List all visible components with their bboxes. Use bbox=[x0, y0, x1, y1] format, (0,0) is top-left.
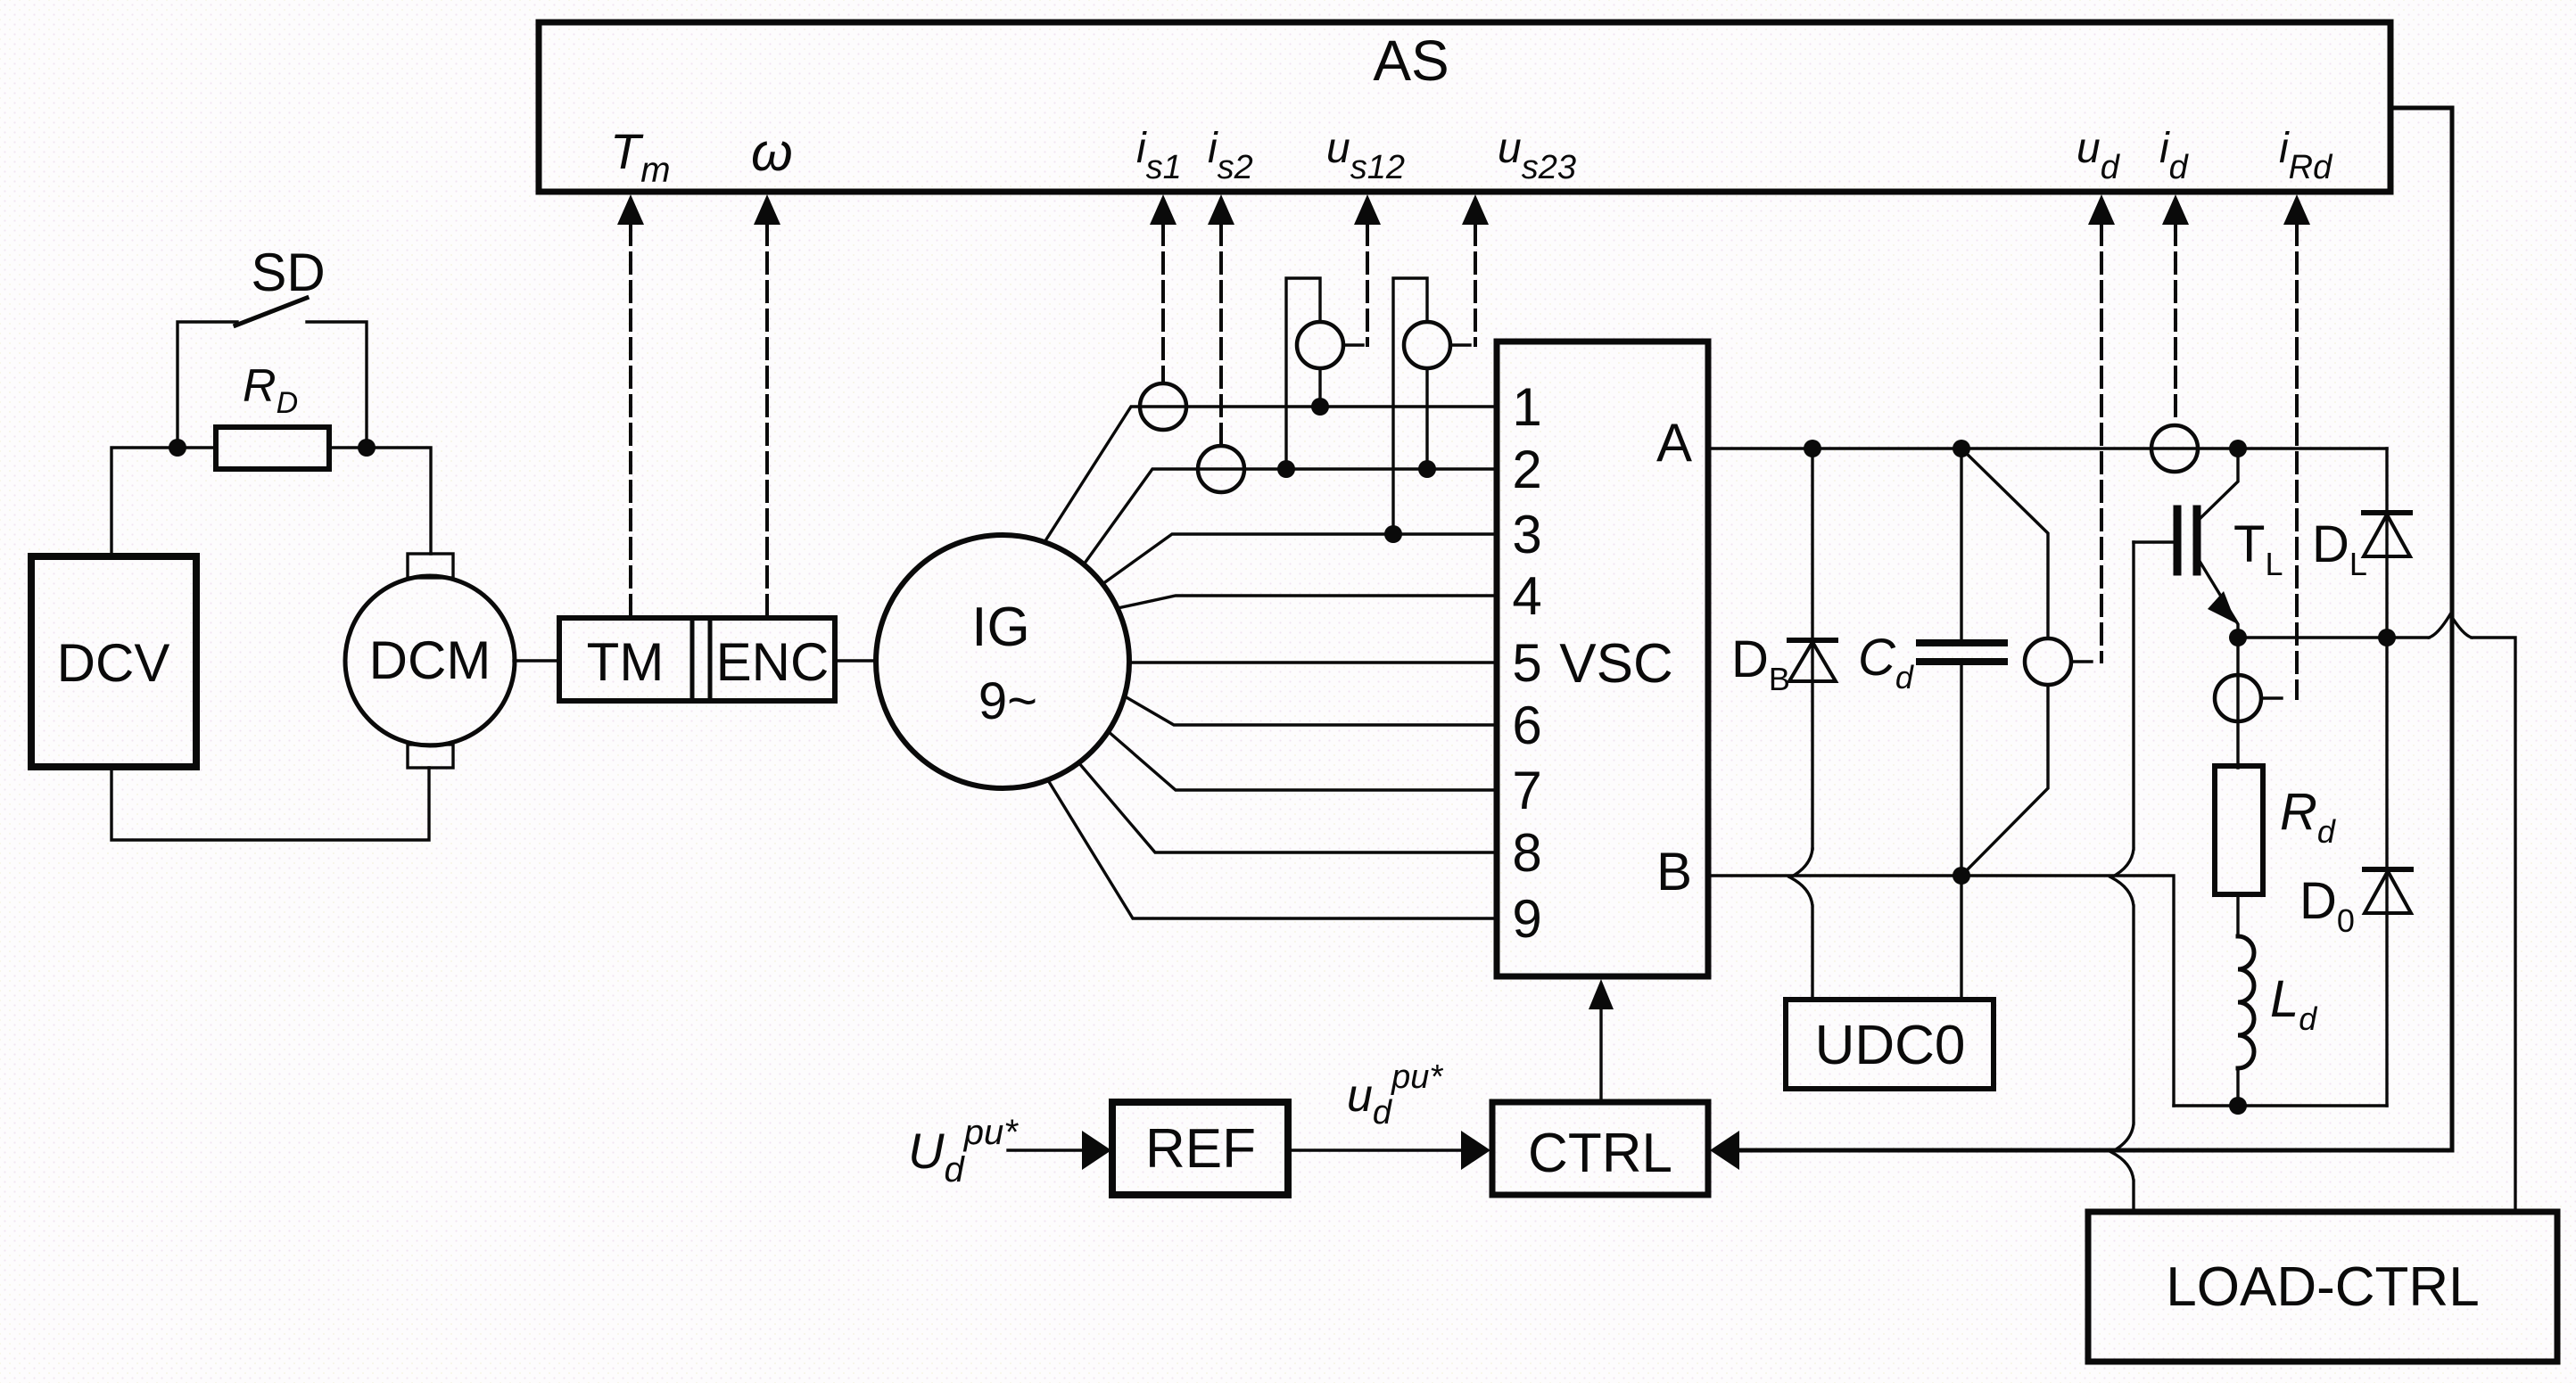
wire us23 to phase2 bbox=[1425, 368, 1428, 469]
dashed measurement line is1 bbox=[1161, 225, 1165, 382]
wire rail A bbox=[1708, 447, 2387, 449]
diode D0 bbox=[2365, 869, 2411, 913]
svg-text:1: 1 bbox=[1512, 377, 1541, 437]
motor DCM bbox=[345, 576, 515, 745]
wire setpoint into REF bbox=[1008, 1148, 1084, 1151]
svg-text:TL: TL bbox=[2233, 515, 2283, 582]
box UDC0 bbox=[1786, 1000, 1994, 1089]
dashed measurement line omega bbox=[765, 225, 769, 618]
box TM ENC bbox=[559, 618, 835, 701]
svg-text:A: A bbox=[1656, 413, 1692, 473]
box REF bbox=[1112, 1102, 1288, 1195]
wire DL branch upper bbox=[2385, 449, 2388, 638]
transistor TL gate wire bbox=[2134, 540, 2174, 543]
svg-text:UDC0: UDC0 bbox=[1815, 1015, 1966, 1076]
box CTRL bbox=[1492, 1102, 1708, 1195]
dashed measurement line us12 bbox=[1366, 225, 1369, 345]
wire phase 5 bbox=[1129, 661, 1497, 663]
transistor TL collector lead bbox=[2200, 449, 2238, 518]
generator IG bbox=[876, 535, 1129, 788]
svg-text:5: 5 bbox=[1512, 633, 1541, 693]
capacitor Cd bbox=[1920, 643, 2004, 662]
svg-text:IG: IG bbox=[971, 597, 1029, 658]
node R_D left bbox=[169, 439, 186, 457]
svg-text:id: id bbox=[2159, 125, 2190, 186]
wire Rd to Ld bbox=[2236, 894, 2239, 936]
transistor TL emitter lead bbox=[2200, 563, 2238, 638]
arrowhead into VSC bottom bbox=[1589, 979, 1614, 1009]
svg-text:Ld: Ld bbox=[2270, 970, 2317, 1037]
svg-text:6: 6 bbox=[1512, 696, 1541, 755]
voltage sensor us23 bbox=[1404, 322, 1450, 368]
current sensor id bbox=[2151, 425, 2198, 472]
box LOAD-CTRL bbox=[2088, 1212, 2557, 1362]
wire Cd branch lower bbox=[1960, 665, 1962, 1000]
transistor TL body bar bbox=[2193, 509, 2201, 572]
dashed measurement line Tm bbox=[629, 225, 632, 618]
DCM bottom terminal bbox=[408, 745, 453, 768]
voltage sensor ud bbox=[2025, 638, 2071, 685]
svg-text:DB: DB bbox=[1731, 630, 1790, 697]
arrowhead us23 into AS bbox=[1462, 194, 1489, 225]
node us23 phase2 bbox=[1418, 460, 1436, 478]
wire REF to CTRL bbox=[1288, 1148, 1462, 1151]
wire DCV top to node bbox=[111, 448, 216, 556]
wire phase 9 bbox=[1048, 780, 1497, 918]
sensor tick iRd bbox=[2261, 696, 2282, 699]
node us12 phase1 bbox=[1311, 398, 1329, 416]
svg-text:B: B bbox=[1656, 842, 1692, 901]
arrowhead omega into AS bbox=[754, 194, 780, 225]
node rail A at TL bbox=[2229, 440, 2247, 457]
wire phase 7 bbox=[1108, 731, 1497, 790]
switch SD blade bbox=[235, 298, 307, 325]
coupling divider left bbox=[690, 618, 695, 701]
svg-text:REF: REF bbox=[1145, 1118, 1256, 1180]
svg-text:8: 8 bbox=[1512, 823, 1541, 883]
acquisition system box AS bbox=[539, 22, 2390, 192]
svg-text:Tm: Tm bbox=[610, 123, 671, 190]
arrowhead iRd into AS bbox=[2283, 194, 2310, 225]
wire AS feedback drop bbox=[1717, 108, 2452, 1150]
arrowhead id into AS bbox=[2162, 194, 2189, 225]
node R_D right bbox=[358, 439, 376, 457]
svg-text:4: 4 bbox=[1512, 566, 1541, 626]
dashed measurement line us23 bbox=[1474, 225, 1477, 345]
wire node to DCM top bbox=[329, 448, 431, 554]
wire ENC to IG bbox=[835, 659, 876, 662]
node rail A at Cd bbox=[1953, 440, 1970, 457]
svg-text:LOAD-CTRL: LOAD-CTRL bbox=[2166, 1256, 2479, 1318]
arrowhead is2 into AS bbox=[1208, 194, 1234, 225]
svg-text:RD: RD bbox=[243, 360, 298, 420]
wire DB branch lower with hop over rail B bbox=[1790, 849, 1812, 1000]
svg-text:CTRL: CTRL bbox=[1528, 1123, 1672, 1184]
svg-text:us23: us23 bbox=[1498, 125, 1576, 186]
wire CTRL to VSC bbox=[1599, 1009, 1602, 1102]
svg-text:is2: is2 bbox=[1208, 125, 1253, 186]
wire SD branch left bbox=[178, 322, 237, 448]
wire phase 2 bbox=[1084, 469, 1497, 564]
wire DB branch upper bbox=[1811, 449, 1813, 849]
svg-text:7: 7 bbox=[1512, 761, 1541, 820]
svg-text:ω: ω bbox=[751, 122, 793, 182]
diode DL bbox=[2364, 513, 2410, 556]
box DCV bbox=[31, 556, 196, 767]
wire SD branch right bbox=[307, 322, 367, 448]
svg-text:9: 9 bbox=[1512, 889, 1541, 949]
svg-text:9~: 9~ bbox=[978, 672, 1037, 730]
svg-text:ENC: ENC bbox=[716, 632, 830, 692]
arrowhead ud into AS bbox=[2088, 194, 2115, 225]
svg-text:DCM: DCM bbox=[369, 630, 491, 690]
wire phase 8 bbox=[1078, 762, 1497, 852]
wire DCM bottom to DCV bottom bbox=[111, 767, 429, 840]
wire Cd branch upper bbox=[1960, 449, 1962, 639]
svg-text:TM: TM bbox=[587, 632, 665, 692]
wire gate down to LOAD-CTRL with hops bbox=[2111, 542, 2134, 1212]
voltage sensor us12 bbox=[1297, 322, 1343, 368]
node rail B at Cd bbox=[1953, 867, 1970, 885]
converter VSC bbox=[1497, 342, 1708, 976]
DCM top terminal bbox=[408, 554, 453, 578]
wire phase 1 bbox=[1044, 407, 1497, 542]
arrowhead into REF bbox=[1082, 1131, 1111, 1170]
arrowhead into CTRL left bbox=[1461, 1131, 1490, 1170]
svg-text:SD: SD bbox=[251, 243, 325, 302]
node emitter junction bbox=[2229, 629, 2247, 646]
svg-text:Udpu*: Udpu* bbox=[908, 1113, 1019, 1190]
wire ud sensor upper diagonal bbox=[1961, 449, 2048, 638]
wire ud sensor lower diagonal bbox=[1961, 685, 2048, 876]
wire us12 to phase1 bbox=[1318, 368, 1321, 407]
node rail A at DB bbox=[1804, 440, 1821, 457]
svg-text:Cd: Cd bbox=[1858, 629, 1914, 696]
node us12 phase2 bbox=[1277, 460, 1295, 478]
node us23 phase3 bbox=[1384, 525, 1402, 543]
svg-text:VSC: VSC bbox=[1559, 633, 1672, 695]
transistor TL gate bar bbox=[2174, 509, 2182, 572]
svg-text:3: 3 bbox=[1512, 505, 1541, 564]
svg-text:us12: us12 bbox=[1326, 125, 1405, 186]
wire Ld to bottom junction bbox=[2236, 1068, 2239, 1106]
svg-text:udpu*: udpu* bbox=[1347, 1058, 1443, 1132]
wire phase 4 bbox=[1118, 596, 1497, 608]
current sensor iRd bbox=[2215, 675, 2261, 721]
wire rail B bbox=[1708, 876, 2174, 1106]
wire DCM to TM bbox=[514, 659, 559, 662]
inductor Ld bbox=[2238, 936, 2254, 1068]
svg-text:2: 2 bbox=[1512, 440, 1541, 499]
sensor tick us23 bbox=[1450, 343, 1470, 346]
svg-text:DCV: DCV bbox=[57, 633, 170, 693]
svg-text:is1: is1 bbox=[1136, 125, 1182, 186]
current sensor is2 bbox=[1198, 446, 1244, 492]
svg-text:ud: ud bbox=[2076, 125, 2121, 186]
node DL junction bbox=[2378, 629, 2396, 646]
dashed measurement line is2 bbox=[1219, 225, 1223, 444]
diode DB bbox=[1789, 640, 1836, 681]
arrowhead us12 into AS bbox=[1354, 194, 1381, 225]
wire phase 3 bbox=[1102, 534, 1497, 584]
wire us12 loop to phase2 bbox=[1286, 278, 1320, 469]
wire D0 branch bbox=[2385, 638, 2388, 1106]
svg-text:Rd: Rd bbox=[2280, 783, 2336, 850]
arrowhead is1 into AS bbox=[1150, 194, 1177, 225]
wire bottom return bbox=[2174, 1104, 2387, 1107]
svg-text:AS: AS bbox=[1373, 29, 1449, 93]
coupling divider right bbox=[708, 618, 713, 701]
dashed measurement line ud bbox=[2100, 225, 2103, 662]
resistor R_D bbox=[216, 427, 329, 469]
svg-text:DL: DL bbox=[2312, 515, 2367, 582]
resistor Rd bbox=[2215, 766, 2263, 894]
wire emitter row with hop over AS drop bbox=[2238, 614, 2515, 1212]
node bottom junction bbox=[2229, 1097, 2247, 1115]
sensor tick ud bbox=[2071, 660, 2092, 663]
wire phase 6 bbox=[1125, 696, 1497, 725]
sensor tick us12 bbox=[1343, 343, 1363, 346]
dashed measurement line id bbox=[2174, 225, 2177, 424]
svg-text:D0: D0 bbox=[2299, 872, 2355, 939]
svg-text:iRd: iRd bbox=[2279, 125, 2333, 186]
transistor TL emitter arrowhead bbox=[2208, 591, 2236, 623]
arrowhead into CTRL right bbox=[1710, 1131, 1739, 1170]
arrowhead Tm into AS bbox=[617, 194, 644, 225]
wire us23 loop to phase3 bbox=[1393, 278, 1427, 534]
dashed measurement line iRd bbox=[2295, 225, 2299, 698]
wire load branch down bbox=[2236, 638, 2239, 768]
current sensor is1 bbox=[1140, 383, 1186, 430]
